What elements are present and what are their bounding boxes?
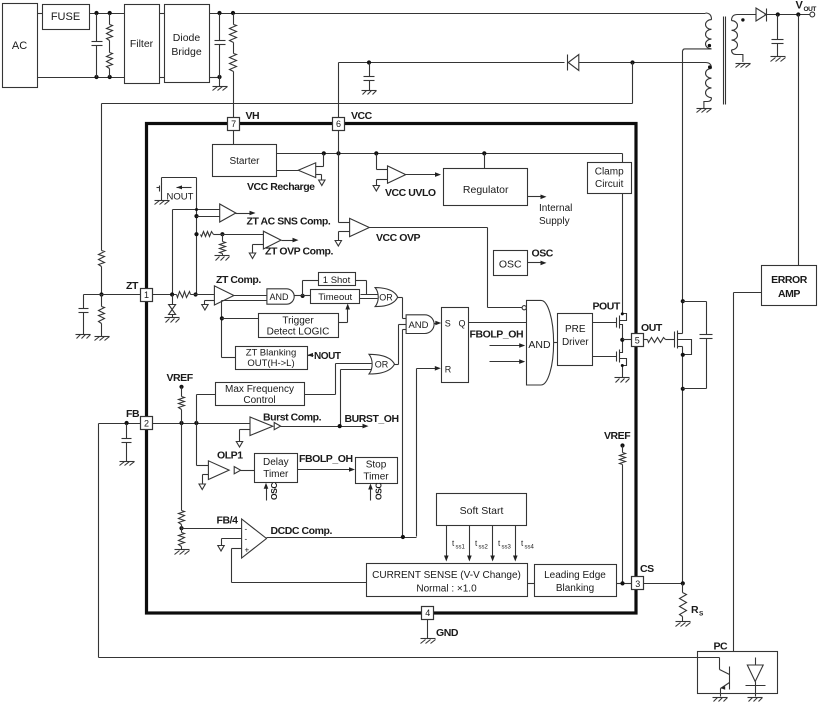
- wire pin6 internal drop: [338, 131, 340, 223]
- wire current sense to DCDC plus: [232, 549, 367, 583]
- svg-text:+: +: [245, 546, 250, 555]
- svg-text:GND: GND: [436, 627, 459, 639]
- label OSC net: [532, 248, 554, 260]
- wire FB/4 to DCDC: [182, 528, 242, 530]
- wire MFC to OR2: [305, 364, 372, 395]
- label VREF upper: [167, 372, 194, 384]
- capacitor C1 bulk: [215, 14, 226, 78]
- block Max Frequency Control: [216, 383, 305, 407]
- label POUT: [593, 301, 621, 313]
- ground photodiode: [748, 698, 763, 702]
- svg-text:Circuit: Circuit: [595, 179, 624, 190]
- svg-text:Timer: Timer: [263, 469, 289, 480]
- svg-text:Delay: Delay: [263, 457, 289, 468]
- wire VCC OVP to gate bubble: [370, 228, 523, 308]
- resistor R1 discharge upper: [107, 14, 113, 41]
- buffer arrow burst: [274, 423, 280, 430]
- arrow NOUT direction: [177, 185, 192, 189]
- svg-text:ss1: ss1: [456, 545, 466, 551]
- svg-text:OUT: OUT: [804, 6, 817, 13]
- svg-text:Regulator: Regulator: [463, 184, 509, 196]
- node VCC cap junction: [367, 60, 371, 64]
- svg-text:V: V: [796, 0, 804, 12]
- svg-text:VCC Recharge: VCC Recharge: [247, 181, 315, 193]
- phototransistor PC-T: [720, 658, 730, 697]
- svg-text:FB: FB: [126, 408, 140, 420]
- wire FUSE to Filter (line top): [90, 13, 125, 15]
- regulator block: [444, 169, 528, 206]
- svg-text:1: 1: [144, 290, 149, 300]
- node line-top junctions: [94, 11, 111, 15]
- block 1 Shot: [319, 273, 356, 287]
- wire internal supply arrow: [528, 195, 547, 200]
- wire FB pin right: [153, 423, 251, 425]
- svg-text:VREF: VREF: [604, 430, 631, 442]
- wire AND1 to 1Shot: [303, 281, 319, 296]
- wire DCDC to AND2: [403, 330, 407, 537]
- label ZT Comp: [216, 274, 261, 286]
- resistor R6 ZT divider lower: [99, 295, 105, 324]
- svg-text:OSC: OSC: [269, 483, 279, 500]
- node CS internal junction: [620, 581, 624, 585]
- block Stop Timer: [356, 458, 398, 484]
- wire internal VCC rail: [277, 154, 623, 163]
- wire PRE top output: [593, 322, 617, 324]
- label Vout: [796, 0, 817, 13]
- svg-text:OSC: OSC: [499, 259, 522, 271]
- svg-text:OLP1: OLP1: [217, 450, 243, 462]
- ground secondary winding: [736, 64, 751, 68]
- svg-text:Control: Control: [243, 395, 275, 406]
- ground bulk cap: [213, 78, 228, 91]
- block PRE Driver: [558, 314, 593, 366]
- terminal Vout circle: [810, 12, 815, 17]
- wire ZT OVP output: [282, 238, 299, 243]
- node aux polarity dot: [708, 65, 711, 68]
- transformer T1 core: [724, 17, 726, 105]
- node M1 source junctions: [681, 353, 685, 391]
- gate OR2: [369, 354, 395, 374]
- node OUT drive junction: [620, 338, 624, 342]
- comparator ZT Comp: [202, 286, 234, 310]
- transistor M1 external MOSFET: [675, 331, 692, 355]
- svg-text:ZT AC SNS Comp.: ZT AC SNS Comp.: [247, 216, 331, 228]
- svg-text:ERROR: ERROR: [771, 274, 808, 286]
- svg-text:3: 3: [635, 579, 640, 589]
- gate AND3 main: [527, 300, 554, 385]
- wire AND1 to Timeout: [295, 295, 311, 297]
- node BURST junction: [338, 424, 342, 428]
- wire ZT pin right: [153, 294, 177, 296]
- resistor R11 VREF upper: [179, 387, 185, 424]
- ground FB cap: [120, 462, 135, 466]
- resistor R7 ZT OVP series: [201, 232, 214, 237]
- block Soft Start: [437, 494, 527, 526]
- svg-text:Soft Start: Soft Start: [460, 505, 504, 517]
- svg-text:OUT(H->L): OUT(H->L): [247, 358, 294, 369]
- svg-text:AMP: AMP: [778, 288, 800, 300]
- arrows soft start taps: [444, 526, 518, 562]
- AC source box: [3, 4, 38, 88]
- diode D3 ZT clamp: [169, 295, 176, 318]
- IC boundary box: [147, 124, 637, 614]
- pin 7 VH: [228, 110, 260, 131]
- diode D2 output rectifier: [756, 8, 767, 22]
- comparator Burst Comp: [236, 417, 272, 447]
- svg-text:VCC OVP: VCC OVP: [376, 232, 421, 244]
- resistor R4 startup lower: [230, 43, 237, 72]
- svg-text:Bridge: Bridge: [171, 46, 202, 58]
- label BURST_OH: [345, 413, 399, 425]
- labels tss1-tss4: [452, 539, 535, 551]
- wire BURST to OR2: [341, 370, 372, 426]
- gate AND2: [406, 315, 434, 334]
- resistor R10 gate: [644, 338, 675, 343]
- wire R5 to ZT node: [101, 267, 103, 295]
- pin 2 FB: [126, 408, 153, 430]
- svg-text:FBOLP_OH: FBOLP_OH: [299, 453, 353, 465]
- svg-text:Filter: Filter: [130, 38, 154, 50]
- svg-text:PC: PC: [714, 641, 729, 653]
- node rail junctions: [322, 151, 487, 155]
- block Leading Edge Blanking: [535, 565, 617, 597]
- wire rectified bus to transformer primary: [210, 13, 706, 15]
- wire bridge bottom to bulk cap: [210, 75, 222, 79]
- clamp circuit block: [588, 163, 632, 194]
- ref DCDC: [218, 539, 242, 552]
- node line-bottom junctions: [94, 75, 111, 79]
- comparator ZT ACSNS: [220, 204, 236, 222]
- wire latch Q to gate: [469, 322, 527, 324]
- resistor R3 startup upper: [230, 14, 237, 43]
- svg-text:ZT: ZT: [126, 280, 139, 292]
- svg-text:S: S: [445, 319, 451, 329]
- wire feedback loop: [99, 424, 720, 658]
- node ZT ACSNS taps: [194, 208, 198, 218]
- pin 3 CS: [632, 563, 655, 590]
- svg-text:VREF: VREF: [167, 372, 194, 384]
- wire Filter to Diode Bridge bottom: [160, 77, 165, 79]
- arrow FBOLP_OH into gate: [490, 343, 526, 348]
- arrow second into gate: [490, 359, 526, 364]
- label Burst Comp: [263, 412, 322, 424]
- svg-text:POUT: POUT: [593, 301, 621, 313]
- label VREF lower: [604, 430, 631, 442]
- arrow OSC into stop timer: [368, 483, 383, 501]
- wire M1 source down: [682, 347, 684, 584]
- arrow OSC into delay timer: [264, 483, 279, 501]
- wire ZT pin left: [84, 294, 141, 296]
- diode bridge box: [165, 5, 210, 83]
- comparator VCC UVLO: [373, 154, 406, 192]
- svg-text:R: R: [691, 604, 699, 616]
- resistor R13 FB divider lower: [179, 529, 185, 550]
- transformer T1 primary winding: [683, 13, 712, 51]
- wire reset line: [417, 366, 441, 537]
- svg-text:AND: AND: [269, 292, 289, 302]
- node output cap junction: [776, 12, 780, 16]
- svg-text:Clamp: Clamp: [595, 167, 624, 178]
- capacitor C6 FB: [122, 424, 132, 462]
- fuse F1 box: [43, 5, 90, 30]
- node ZT OVP tap: [194, 232, 198, 236]
- label NOUT box: [167, 192, 194, 203]
- svg-text:VCC UVLO: VCC UVLO: [385, 187, 436, 199]
- comparator OLP1: [199, 461, 229, 490]
- svg-text:ZT Blanking: ZT Blanking: [246, 348, 297, 359]
- wire ZT ACSNS minus input: [197, 216, 220, 218]
- svg-text:Max Frequency: Max Frequency: [225, 384, 294, 395]
- svg-text:R: R: [445, 365, 452, 375]
- ground ZT cap: [76, 335, 91, 339]
- wire FB to MFC: [197, 395, 216, 424]
- wire aux sense down: [632, 63, 634, 104]
- pin 6 VCC: [333, 110, 373, 131]
- svg-text:NOUT: NOUT: [167, 192, 194, 203]
- wire AC to FUSE: [38, 13, 43, 15]
- svg-text:ss2: ss2: [479, 545, 489, 551]
- wire startup resistors to pin VH: [233, 72, 235, 118]
- wire 1Shot to OR1: [356, 281, 378, 295]
- svg-text:Starter: Starter: [229, 156, 260, 167]
- label PC: [714, 641, 729, 653]
- label NOUT net: [314, 351, 341, 362]
- svg-text:6: 6: [336, 119, 341, 129]
- svg-text:Blanking: Blanking: [556, 583, 594, 594]
- ground ZT clamp: [165, 318, 180, 323]
- svg-text:AND: AND: [528, 339, 551, 351]
- wire VCC pin riser: [338, 63, 340, 118]
- svg-text:CS: CS: [640, 563, 654, 575]
- node ZT pin junctions: [170, 292, 198, 296]
- label FB/4: [217, 515, 239, 527]
- node Vout sense junction: [796, 12, 800, 16]
- photodiode PC-D: [746, 658, 766, 697]
- label VCC Recharge: [247, 181, 315, 193]
- label ZT AC SNS Comp: [247, 216, 331, 228]
- transistor Q1 high-side: [617, 312, 627, 339]
- diode D1 VCC rectifier: [568, 55, 633, 71]
- wire pin7 to starter: [233, 131, 235, 145]
- svg-text:Detect LOGIC: Detect LOGIC: [267, 327, 330, 338]
- block Trigger Detect LOGIC: [259, 314, 339, 338]
- wire clamp to POUT driver: [622, 194, 624, 314]
- svg-text:4: 4: [425, 608, 430, 618]
- resistor R5 ZT divider upper: [99, 251, 105, 267]
- wire BURST_OH: [281, 424, 369, 429]
- svg-text:DCDC Comp.: DCDC Comp.: [271, 525, 333, 537]
- svg-text:OR: OR: [379, 293, 393, 303]
- svg-text:Q: Q: [459, 319, 466, 329]
- block CURRENT SENSE: [367, 564, 528, 597]
- svg-text:2: 2: [144, 419, 149, 429]
- svg-text:5: 5: [635, 335, 640, 345]
- wire OR2 to AND2: [395, 325, 407, 365]
- ground NOUT: [155, 197, 170, 205]
- svg-text:ss4: ss4: [525, 545, 535, 551]
- svg-text:Trigger: Trigger: [282, 316, 314, 327]
- node FB junctions: [179, 421, 198, 425]
- ground low-side source: [615, 378, 630, 383]
- wire AND3 to PRE driver: [554, 342, 558, 344]
- node snubber top: [681, 299, 685, 303]
- ground ZT OVP filter: [215, 254, 230, 261]
- resistor R8 ZT OVP filter: [220, 235, 226, 254]
- ground VCC cap: [362, 91, 377, 95]
- ground FB divider: [175, 550, 190, 555]
- node CS external junction: [681, 581, 685, 585]
- node DCDC branch: [401, 535, 405, 539]
- wire ZT blanking input: [222, 357, 236, 359]
- node primary polarity dot: [708, 44, 711, 47]
- optocoupler PC box: [698, 652, 778, 694]
- label Internal Supply: [539, 203, 572, 227]
- block ZT Blanking: [236, 347, 308, 370]
- svg-text:Timer: Timer: [363, 472, 389, 483]
- wire NOUT vertical bus: [196, 178, 198, 295]
- svg-text:VCC: VCC: [351, 110, 373, 122]
- wire delay to stop timer: [298, 467, 356, 472]
- node bulk cap junction: [217, 11, 235, 15]
- wire VCC UVLO output: [406, 172, 442, 177]
- wire OR1 to AND2: [398, 298, 407, 319]
- pin 1 ZT: [126, 280, 153, 302]
- wire pin4 ground: [427, 620, 429, 639]
- wire R9 to ZT comp: [191, 294, 215, 296]
- wire trigger to timeout: [339, 304, 351, 323]
- node VREF feed: [179, 385, 183, 389]
- wire VCC rail horizontal: [339, 62, 565, 64]
- ground Rs: [676, 622, 691, 627]
- buffer arrow OLP1: [234, 467, 240, 474]
- wire ZT OVP input: [214, 234, 264, 236]
- svg-text:1 Shot: 1 Shot: [323, 275, 351, 286]
- block Timeout: [311, 290, 360, 304]
- label OLP1: [217, 450, 243, 462]
- label Rs: [691, 604, 704, 618]
- wire PRE bottom output: [593, 356, 617, 358]
- wire trigger input: [222, 318, 259, 320]
- node secondary polarity dot: [741, 18, 744, 21]
- capacitor C2 VCC: [364, 63, 375, 91]
- svg-text:FUSE: FUSE: [51, 11, 80, 23]
- wire Timeout to OR1: [360, 298, 378, 300]
- pin 5 OUT: [632, 322, 663, 347]
- svg-text:Normal : ×1.0: Normal : ×1.0: [416, 584, 477, 595]
- ground phototransistor: [713, 698, 728, 702]
- wire to OUT pin: [623, 339, 632, 341]
- wire OLP1 to delay timer: [241, 470, 255, 472]
- wire pin3 to sense resistor: [644, 583, 683, 585]
- resistor R14 VREF offset: [620, 446, 626, 584]
- wire secondary to output diode: [738, 14, 757, 16]
- wire DCDC output: [267, 537, 417, 539]
- latch SR block: [442, 308, 469, 383]
- svg-text:Timeout: Timeout: [318, 292, 352, 303]
- comparator ZT OVP: [249, 231, 281, 258]
- bubble AND3 inverted input: [522, 306, 526, 310]
- capacitor CX1 across line: [92, 14, 103, 78]
- svg-text:Supply: Supply: [539, 216, 570, 227]
- svg-text:Stop: Stop: [366, 460, 387, 471]
- ground output cap: [771, 57, 786, 62]
- resistor R9 ZT series: [177, 292, 191, 298]
- transformer T1 aux winding: [704, 63, 712, 109]
- svg-text:Internal: Internal: [539, 203, 572, 214]
- resistor R15 Rs sense: [680, 584, 687, 622]
- comparator VCC OVP: [335, 218, 369, 246]
- label VCC UVLO: [385, 187, 436, 199]
- label VCC OVP: [376, 232, 421, 244]
- svg-text:Leading Edge: Leading Edge: [544, 570, 606, 581]
- svg-text:ZT Comp.: ZT Comp.: [216, 274, 261, 286]
- label FBOLP_OH left: [299, 453, 353, 465]
- node FB/4 tap: [179, 525, 183, 531]
- resistor R12 FB divider: [179, 424, 185, 525]
- node AND1 output: [301, 294, 305, 298]
- wire LEB to pin3: [617, 583, 632, 585]
- svg-text:FB/4: FB/4: [217, 515, 239, 527]
- filter box: [125, 5, 160, 84]
- svg-text:OUT: OUT: [641, 322, 663, 334]
- capacitor C3 output: [772, 15, 784, 57]
- svg-text:VH: VH: [246, 110, 260, 122]
- ground aux winding: [697, 109, 712, 113]
- svg-text:Burst Comp.: Burst Comp.: [263, 412, 322, 424]
- svg-text:BURST_OH: BURST_OH: [345, 413, 399, 425]
- label ZT OVP Comp: [265, 246, 333, 258]
- wire AND1 second input: [222, 301, 267, 358]
- svg-text:ss3: ss3: [502, 545, 512, 551]
- capacitor C5 snubber: [683, 302, 713, 389]
- wire OSC output: [528, 261, 547, 266]
- wire output node: [765, 14, 811, 16]
- wire error amp to optocoupler: [734, 293, 762, 652]
- node trigger junction: [220, 316, 224, 320]
- pin 4 GND: [422, 607, 459, 640]
- gate OR1: [375, 288, 398, 307]
- wire FB to OLP1: [197, 424, 209, 466]
- svg-text:CURRENT SENSE (V-V Change): CURRENT SENSE (V-V Change): [372, 570, 521, 581]
- wire CS to LEB: [528, 583, 535, 585]
- svg-text:ZT OVP Comp.: ZT OVP Comp.: [265, 246, 333, 258]
- wire AC to Filter (line bottom): [38, 77, 125, 79]
- wire diode to aux winding: [633, 62, 706, 64]
- wire ZT ACSNS plus input: [173, 210, 220, 295]
- transformer T1 secondary winding: [732, 15, 743, 63]
- node ZT divider tap: [99, 292, 103, 296]
- NOUT driver circuit: [157, 178, 197, 197]
- svg-text:OSC: OSC: [532, 248, 554, 260]
- svg-text:7: 7: [231, 119, 236, 129]
- wire regulator to rail: [484, 154, 486, 169]
- wire NOUT into blanking: [308, 353, 314, 357]
- svg-text:AND: AND: [408, 320, 428, 331]
- svg-text:AC: AC: [12, 40, 27, 52]
- node aux sense junction: [630, 60, 634, 64]
- gate AND1 ZT: [234, 289, 295, 304]
- block ERROR AMP: [762, 266, 817, 306]
- svg-text:FBOLP_OH: FBOLP_OH: [470, 329, 524, 341]
- resistor R2 discharge lower: [107, 41, 113, 78]
- svg-text:OSC: OSC: [373, 483, 383, 500]
- svg-text:-: -: [245, 525, 248, 534]
- svg-text:PRE: PRE: [565, 324, 586, 335]
- svg-text:Diode: Diode: [173, 32, 201, 44]
- wire Filter to Diode Bridge top: [160, 13, 165, 15]
- svg-text:S: S: [699, 611, 704, 618]
- wire M1 drain to primary: [682, 51, 684, 334]
